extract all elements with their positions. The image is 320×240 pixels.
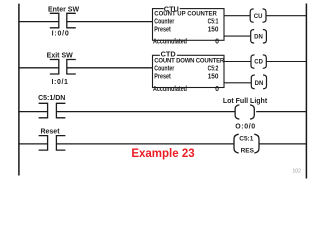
rung 3 wire: contact to Lot Full Light coil: [56, 111, 234, 113]
svg-text:Example 23: Example 23: [131, 148, 194, 160]
svg-text:150: 150: [208, 74, 219, 81]
right power rail: [305, 4, 307, 179]
contact Reset (XIC): [39, 136, 66, 151]
svg-text:CU: CU: [254, 14, 263, 20]
svg-text:150: 150: [208, 26, 219, 33]
counter CTD box: [153, 55, 225, 87]
CTD title background: [160, 54, 177, 57]
contact Enter SW (XIC I:0/0): [50, 13, 76, 27]
svg-text:CTD: CTD: [161, 49, 176, 58]
coil Lot Full Light (OTE O:0/0): [235, 105, 254, 119]
wire CTD box to DN output: [224, 82, 251, 84]
contact Exit SW (XIC I:0/1): [50, 60, 76, 75]
svg-text:Preset: Preset: [154, 74, 171, 81]
wire CTU box to CU output: [224, 15, 250, 17]
RES instruction C5:1: [234, 134, 259, 153]
svg-text:COUNT DOWN COUNTER: COUNT DOWN COUNTER: [154, 58, 225, 64]
wire CD output to right rail: [266, 61, 306, 63]
svg-text:Counter: Counter: [154, 18, 174, 25]
wire CTD box to CD output: [224, 61, 251, 63]
svg-text:0: 0: [215, 86, 219, 93]
CU output bracket: [250, 9, 266, 22]
rung 3 wire: coil to right rail: [256, 111, 306, 113]
svg-text:DN: DN: [255, 81, 264, 87]
svg-text:DN: DN: [254, 34, 263, 40]
svg-text:RES: RES: [241, 148, 255, 155]
svg-text:C5:1: C5:1: [208, 18, 219, 25]
svg-text:C5:2: C5:2: [208, 65, 219, 72]
rung 3 wire: left rail to C5:1/DN contact: [18, 111, 47, 113]
left power rail: [18, 4, 20, 176]
svg-text:C5:1: C5:1: [239, 135, 253, 142]
svg-text:Counter: Counter: [154, 65, 174, 72]
svg-text:I:0/0: I:0/0: [52, 31, 70, 38]
svg-text:Accumulated: Accumulated: [153, 86, 187, 93]
svg-text:Accumulated: Accumulated: [153, 39, 187, 46]
CTU title background: [164, 7, 180, 10]
svg-text:Exit SW: Exit SW: [47, 52, 73, 59]
svg-text:0: 0: [215, 39, 219, 46]
contact C5:1/DN (XIC): [39, 103, 66, 118]
rung 1 wire: Enter SW contact to CTU box: [67, 21, 153, 23]
CD output bracket: [251, 55, 266, 68]
svg-text:Reset: Reset: [40, 129, 60, 136]
svg-text:Enter SW: Enter SW: [48, 7, 80, 14]
rung 4 wire: RES to right rail: [259, 143, 306, 145]
counter CTU box: [153, 9, 225, 41]
svg-text:O:0/0: O:0/0: [235, 124, 256, 131]
rung 4 wire: contact to RES instruction: [56, 143, 233, 145]
rung 1 wire: left rail to Enter SW contact: [18, 21, 59, 23]
svg-text:COUNT UP COUNTER: COUNT UP COUNTER: [154, 12, 217, 18]
rung 2 wire: left rail to Exit SW contact: [18, 67, 59, 69]
svg-text:102: 102: [293, 168, 302, 174]
svg-text:Lot Full Light: Lot Full Light: [223, 98, 268, 105]
svg-text:C5:1/DN: C5:1/DN: [38, 95, 65, 102]
DN output bracket (CTD): [251, 75, 266, 89]
svg-text:I:0/1: I:0/1: [51, 79, 68, 86]
wire CU output to right rail: [266, 15, 306, 17]
svg-text:CD: CD: [254, 60, 263, 66]
rung 2 wire: Exit SW contact to CTD box: [67, 67, 153, 69]
DN output bracket (CTU): [251, 30, 267, 44]
rung 4 wire: left rail to Reset contact: [18, 143, 47, 145]
svg-text:Preset: Preset: [154, 26, 171, 33]
wire CTU box to DN output: [224, 35, 251, 37]
